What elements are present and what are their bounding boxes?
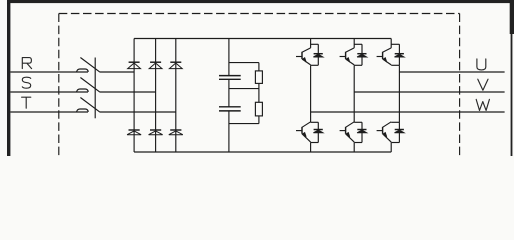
wire collector-diode jog Q6 (bottom IGBT leg 3) [391, 121, 399, 123]
wire diode branch Q5 (bottom IGBT leg 2) [361, 122, 363, 142]
dashed enclosure box [58, 14, 60, 157]
wire emitter-diode jog Q3 (top IGBT leg 3) [391, 64, 399, 66]
input terminal label T [22, 97, 31, 108]
wire rectifier leg 1 [133, 39, 135, 153]
emitter arm with arrow Q5 (bottom IGBT leg 2) [346, 134, 355, 142]
transistor Q2 (top IGBT leg 2) [353, 39, 355, 48]
emitter arm with arrow Q1 (top IGBT leg 1) [302, 59, 311, 65]
transistor Q6 (bottom IGBT leg 3) [383, 122, 392, 128]
wire diode branch Q1 (top IGBT leg 1) [317, 44, 319, 65]
transistor Q1 (top IGBT leg 1) [310, 39, 312, 48]
wire emitter to DC- bus leg 2 [353, 143, 355, 153]
transistor Q3 (top IGBT leg 3) [390, 39, 392, 48]
diode VD1 freewheel of Q1 (top IGBT leg 1) [314, 53, 323, 55]
diode VD3 freewheel of Q3 (top IGBT leg 3) [395, 53, 404, 55]
switch QF pole T fixed contact [77, 109, 89, 112]
diode D4 (rectifier bottom) [129, 129, 140, 131]
wire input S [10, 91, 88, 93]
emitter arm with arrow Q2 (top IGBT leg 2) [346, 59, 355, 65]
wire emitter-diode jog Q4 (bottom IGBT leg 1) [311, 142, 319, 144]
output terminal label V [478, 79, 488, 90]
wire rectifier leg 2 [155, 39, 157, 153]
wire switch to rectifier S [100, 91, 156, 93]
wire emitter-diode jog Q1 (top IGBT leg 1) [311, 64, 319, 66]
wire output W [311, 111, 505, 113]
wire diode branch Q2 (top IGBT leg 2) [361, 44, 363, 65]
border frame right bar top thick section [510, 0, 514, 34]
output terminal label U [477, 59, 486, 70]
transistor Q4 (bottom IGBT leg 1) [302, 122, 311, 128]
wire emitter to DC- bus leg 1 [310, 143, 312, 153]
wire emitter to DC- bus leg 3 [390, 143, 392, 153]
wire diode branch Q6 (bottom IGBT leg 3) [398, 122, 400, 142]
wire input R [10, 71, 88, 73]
diode D3 (rectifier top) [170, 61, 181, 63]
wire DC+ bus [134, 38, 391, 40]
border frame right bar [511, 0, 513, 156]
capacitor C1 [219, 75, 241, 77]
wire emitter-diode jog Q2 (top IGBT leg 2) [354, 64, 362, 66]
wire emitter-diode jog Q5 (bottom IGBT leg 2) [354, 142, 362, 144]
diode VD5 freewheel of Q5 (bottom IGBT leg 2) [357, 129, 366, 131]
emitter arm with arrow Q6 (bottom IGBT leg 3) [383, 134, 392, 142]
gate stub Q5 (bottom IGBT leg 2) [340, 130, 346, 132]
wire resistor branch [258, 63, 260, 124]
wire collector-diode jog Q2 (top IGBT leg 2) [354, 43, 362, 45]
wire DC link left branch [228, 39, 230, 153]
gate stub Q4 (bottom IGBT leg 1) [296, 130, 302, 132]
output terminal label W [476, 99, 489, 110]
input terminal label R [22, 58, 31, 69]
wire inverter leg 3 midpoint [398, 65, 400, 122]
gate stub Q6 (bottom IGBT leg 3) [377, 130, 383, 132]
wire rectifier leg 3 [175, 39, 177, 153]
wire cap-resistor top jog [229, 62, 259, 64]
wire collector-diode jog Q4 (bottom IGBT leg 1) [311, 121, 319, 123]
wire diode branch Q3 (top IGBT leg 3) [398, 44, 400, 65]
wire emitter-diode jog Q6 (bottom IGBT leg 3) [391, 142, 399, 144]
wire collector-diode jog Q1 (top IGBT leg 1) [311, 43, 319, 45]
wire inverter leg 2 midpoint [353, 65, 355, 122]
emitter arm with arrow Q3 (top IGBT leg 3) [383, 59, 392, 65]
wire collector-diode jog Q3 (top IGBT leg 3) [391, 43, 399, 45]
wire switch to rectifier R [100, 71, 134, 73]
wire diode branch Q4 (bottom IGBT leg 1) [317, 122, 319, 142]
resistor R2 [255, 102, 262, 116]
border frame top bar [7, 0, 514, 3]
capacitor C2 [219, 106, 241, 108]
switch QF linkage rod [94, 58, 96, 119]
wire cap-resistor bottom jog [229, 123, 259, 125]
transistor Q5 (bottom IGBT leg 2) [346, 122, 355, 128]
border frame left bar [7, 0, 10, 156]
diode VD4 freewheel of Q4 (bottom IGBT leg 1) [314, 129, 323, 131]
diode D1 (rectifier top) [129, 61, 140, 63]
gate stub Q2 (top IGBT leg 2) [340, 56, 346, 58]
resistor R1 [255, 71, 262, 84]
gate stub Q3 (top IGBT leg 3) [377, 56, 383, 58]
diode D5 (rectifier bottom) [150, 129, 161, 131]
gate stub Q1 (top IGBT leg 1) [296, 56, 302, 58]
emitter arm with arrow Q4 (bottom IGBT leg 1) [302, 134, 311, 142]
wire input T [10, 111, 88, 113]
wire output V [354, 91, 504, 93]
diode D2 (rectifier top) [150, 61, 161, 63]
switch QF pole T blade [80, 98, 100, 113]
wire collector-diode jog Q5 (bottom IGBT leg 2) [354, 121, 362, 123]
switch QF pole S blade [80, 78, 100, 93]
input terminal label S [22, 77, 30, 88]
wire output U [399, 71, 504, 73]
diode VD6 freewheel of Q6 (bottom IGBT leg 3) [395, 129, 404, 131]
wire switch to rectifier T [100, 111, 176, 113]
wire cap-resistor middle jog [229, 88, 259, 90]
diode D6 (rectifier bottom) [170, 129, 181, 131]
switch QF pole S fixed contact [77, 89, 89, 92]
switch QF pole R blade [80, 58, 100, 73]
diode VD2 freewheel of Q2 (top IGBT leg 2) [357, 53, 366, 55]
switch QF pole R fixed contact [77, 69, 89, 72]
wire inverter leg 1 midpoint [310, 65, 312, 122]
wire DC- bus [134, 151, 391, 153]
